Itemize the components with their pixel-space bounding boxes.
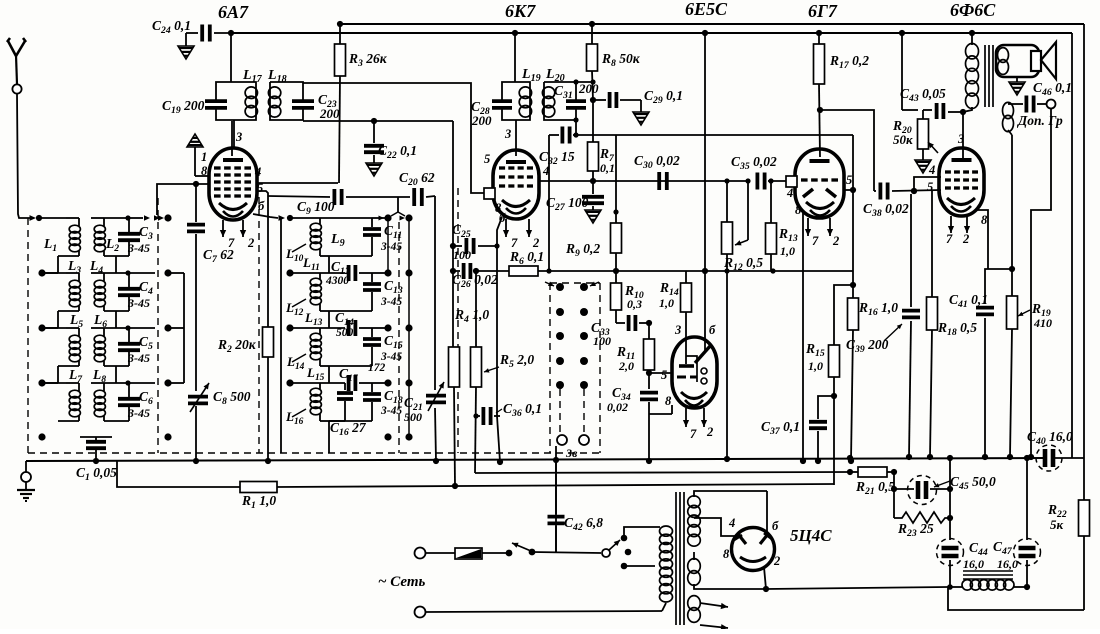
svg-text:3в: 3в	[565, 446, 578, 460]
node bank2 contacts row3	[384, 324, 391, 331]
svg-text:5: 5	[846, 173, 852, 187]
ground C24	[178, 46, 194, 59]
trimmer capacitor C11 3-45	[320, 217, 372, 219]
capacitor C22 0,1	[373, 121, 375, 143]
wire lamp return	[555, 446, 557, 552]
svg-text:2: 2	[247, 236, 254, 250]
wire C41 branch	[985, 269, 1012, 304]
svg-text:172: 172	[368, 362, 386, 374]
svg-text:2: 2	[962, 232, 969, 246]
wire IFT1 secondary bottom AVC	[303, 120, 453, 122]
svg-text:0,02: 0,02	[607, 400, 628, 414]
wire secondary to R19	[1008, 130, 1012, 135]
svg-text:6Ф6С: 6Ф6С	[950, 0, 996, 20]
coil L3 and L4 with trimmer C4	[38, 269, 45, 276]
wire bank1 bottom row	[38, 433, 45, 440]
svg-text:1: 1	[201, 150, 207, 164]
capacitor C21 500 variable	[426, 394, 446, 398]
switch lever	[512, 543, 531, 551]
resistor R11 2,0	[648, 323, 650, 339]
dashed box bottom edge	[28, 452, 600, 454]
svg-text:2: 2	[532, 236, 539, 250]
wire pin5 eye tube	[649, 372, 672, 374]
capacitor C31 200	[566, 99, 586, 103]
capacitor C36 0,1	[476, 415, 480, 417]
IF transformer coil L19	[502, 82, 530, 120]
coil L11/L12	[286, 269, 293, 276]
node bank1 contact row4	[164, 379, 171, 386]
capacitor C24 0,1	[186, 32, 198, 34]
capacitor C38 0,02	[879, 183, 883, 200]
output transformer core	[984, 45, 986, 107]
svg-text:16,0: 16,0	[997, 557, 1018, 571]
wire right edge lower	[1083, 536, 1085, 610]
svg-text:1,0: 1,0	[659, 296, 674, 310]
dial lamp leads	[559, 389, 561, 434]
wire R20 feed	[901, 33, 903, 110]
node 6F6S grid junction	[913, 193, 915, 195]
node bank2 input	[287, 215, 293, 221]
svg-text:5к: 5к	[1050, 517, 1064, 532]
svg-text:8: 8	[795, 203, 802, 217]
wire heater line	[475, 472, 850, 473]
wire second bus right drop	[1071, 33, 1073, 458]
dashed box tuner bank 2	[258, 197, 260, 453]
svg-text:0,3: 0,3	[627, 297, 642, 311]
fuse	[455, 548, 482, 559]
svg-text:0,1: 0,1	[600, 161, 615, 175]
wire plate to C38 branch	[820, 110, 874, 191]
node R23 right	[947, 515, 953, 521]
wire bank2 row1 to contacts	[372, 217, 388, 219]
wire to voltage selector	[532, 552, 601, 553]
resistor R23 25 zigzag	[894, 512, 953, 523]
coil L13/L14	[286, 324, 293, 331]
wire AVC line with C9 C20	[268, 196, 330, 197]
wire IFT1 to 6A7 grid3	[233, 120, 235, 148]
node R16 ground	[848, 458, 854, 464]
wire ground terminal	[25, 461, 27, 472]
wire R12 return	[726, 271, 728, 459]
resistor R21 0,5	[850, 471, 858, 473]
resistor R15 1,0	[829, 345, 840, 377]
node switch contacts	[556, 357, 564, 365]
svg-text:4: 4	[254, 165, 261, 179]
node bank1 row4 junction	[125, 380, 130, 385]
svg-text:7: 7	[511, 236, 518, 250]
node C35 right	[768, 178, 773, 183]
wire C25 line	[453, 245, 462, 247]
wire selector taps	[624, 527, 660, 538]
node C1 ground	[93, 458, 99, 464]
wire R15 branch	[834, 285, 853, 345]
node bank1 contact row2	[164, 269, 171, 276]
svg-text:2: 2	[832, 234, 839, 248]
svg-text:б: б	[772, 519, 779, 533]
wire pin8 6F6S	[977, 210, 988, 269]
node R15/R16 tap	[850, 282, 856, 288]
capacitor C43 0,05	[923, 109, 932, 111]
trimmer capacitor C4 3-45	[128, 273, 130, 287]
wire mains	[426, 552, 455, 554]
wire AF line	[538, 270, 853, 272]
resistor R2 20k	[267, 196, 269, 327]
wire choke left	[948, 586, 963, 588]
pin 6 6A7 wire	[253, 214, 278, 218]
wire IFT1 secondary top to 6K7	[303, 83, 484, 193]
node bank1 row2 junction	[125, 270, 130, 275]
resistor R6 0,1	[509, 266, 538, 276]
ground C27	[585, 210, 601, 223]
trimmer capacitor C13 3-45	[320, 272, 345, 274]
svg-text:Доп. Гр: Доп. Гр	[1016, 113, 1063, 128]
wire grid line 6G7	[656, 180, 749, 182]
wire filter cap feed	[949, 458, 951, 540]
capacitor C32 15	[561, 127, 565, 144]
svg-text:200: 200	[319, 106, 340, 121]
node heater junction	[847, 469, 853, 475]
trimmer capacitor C6 3-45	[128, 383, 130, 397]
pin3 6K7	[515, 120, 517, 156]
wire HV line	[766, 587, 948, 589]
node switch contacts	[556, 308, 564, 316]
voltage selector	[602, 549, 610, 557]
svg-text:4: 4	[928, 163, 935, 177]
wire cathode return	[548, 135, 550, 271]
resistor R3 26k	[339, 24, 341, 44]
node Dop return	[1028, 454, 1034, 460]
heater pins 6K7	[505, 219, 507, 237]
wire bias line R1	[117, 461, 240, 487]
node bank2 contacts row1	[384, 214, 391, 221]
node bank2 contacts row4	[384, 379, 391, 386]
tube 5Z4S envelope	[732, 528, 775, 571]
wire bottom return	[948, 587, 1084, 610]
capacitor C19 200	[205, 99, 227, 103]
wire cathode drop	[496, 246, 498, 416]
wire pin4 6F6S	[914, 177, 941, 191]
heater pins 6F6S	[950, 216, 952, 233]
wire choke right	[1013, 586, 1027, 588]
node choke left	[947, 584, 953, 590]
node bank1 contact row3	[164, 324, 171, 331]
node C29 tap	[590, 97, 596, 103]
capacitor C44 16,0 electrolytic	[937, 539, 964, 566]
svg-text:7: 7	[946, 232, 953, 246]
capacitor C16 27	[344, 383, 346, 390]
wire to contact row2	[129, 272, 155, 274]
wire main ground bus	[26, 458, 1043, 461]
capacitor C42 6,8	[555, 526, 557, 552]
resistor R17 0,2	[818, 33, 820, 44]
coil L1 and L2 with trimmer C3	[39, 217, 66, 219]
wire HV tap to pin4	[694, 518, 735, 536]
capacitor C26 0,02	[462, 263, 466, 279]
svg-text:2: 2	[706, 425, 713, 439]
wire to IFT2	[514, 33, 516, 82]
node AVC C26	[450, 268, 456, 274]
trimmer capacitor C5 3-45	[128, 328, 130, 342]
node switch2	[529, 549, 536, 556]
output transformer primary	[971, 33, 973, 45]
svg-text:3: 3	[235, 130, 242, 144]
capacitor C8 500 variable	[188, 395, 208, 399]
svg-text:7: 7	[228, 236, 235, 250]
svg-text:5: 5	[484, 152, 490, 166]
capacitor C46 0,1	[1008, 103, 1023, 105]
wire AVC vertical	[452, 121, 454, 347]
wire 6G7 diode return	[802, 213, 804, 461]
heater pins 6G7	[807, 218, 809, 236]
potentiometer R12 0,5	[726, 181, 728, 222]
svg-text:8: 8	[723, 547, 730, 561]
resistor R8 50k	[591, 24, 593, 44]
svg-text:200: 200	[471, 113, 492, 128]
svg-text:5: 5	[257, 181, 263, 195]
resistor R18 0,5	[931, 191, 933, 297]
transformer filament winding	[688, 596, 701, 611]
capacitor C33 100	[616, 322, 625, 324]
node switch contacts	[556, 332, 564, 340]
heater pins 6E5S	[685, 408, 687, 427]
capacitor C29 0,1	[593, 99, 606, 101]
wire top supply bus	[340, 23, 1084, 25]
secondary winding Dop Gr	[1003, 102, 1014, 118]
wire to contact row3	[129, 327, 155, 329]
resistor R22 5k	[1079, 500, 1090, 536]
svg-text:3-45: 3-45	[127, 406, 150, 420]
wire 6K7 cathode	[497, 217, 502, 246]
capacitor C20 62	[412, 188, 416, 206]
svg-text:2,0: 2,0	[618, 359, 634, 373]
wire padder line	[434, 196, 436, 390]
mains terminal top	[415, 548, 426, 559]
node AVC C25	[450, 243, 456, 249]
svg-text:8: 8	[201, 164, 208, 178]
svg-text:100: 100	[453, 248, 471, 262]
node bank2 bottom contacts	[384, 433, 391, 440]
svg-text:6А7: 6А7	[218, 2, 249, 22]
wire 5Z4S filament line	[700, 588, 766, 590]
heater pins 6A7	[222, 220, 224, 237]
svg-text:2: 2	[773, 554, 780, 568]
capacitor C30 0,02	[657, 172, 661, 190]
wire bank2 row3 to contacts	[372, 327, 388, 329]
tube 6G7 envelope	[795, 149, 844, 218]
ground R20	[915, 160, 931, 173]
capacitor C34 0,02	[648, 373, 650, 389]
switch arrows	[545, 282, 554, 286]
node switch contacts	[556, 381, 564, 389]
svg-text:~ Сеть: ~ Сеть	[378, 574, 426, 590]
speaker	[996, 45, 1039, 77]
wire anode 6F6S	[962, 112, 964, 161]
capacitor C40 16,0 electrolytic	[1036, 445, 1062, 471]
svg-text:1,0: 1,0	[780, 244, 795, 258]
svg-text:3-45: 3-45	[380, 405, 402, 417]
capacitor C23 200	[292, 99, 314, 103]
node bank1 row1 junction	[125, 215, 130, 220]
ground speaker	[1016, 77, 1018, 82]
coil L9/L10	[290, 217, 320, 219]
node R15 bottom	[831, 393, 837, 399]
coil L15/L16	[286, 379, 293, 386]
6E5S internals	[686, 356, 697, 382]
resistor R16 1,0	[852, 271, 854, 298]
svg-text:3-45: 3-45	[127, 241, 150, 255]
svg-text:4300: 4300	[325, 275, 349, 287]
pin 4 6A7 wire to R3	[256, 182, 338, 184]
wire L20 top to R8 line	[576, 81, 593, 83]
node plate junction	[228, 30, 234, 36]
svg-text:6К7: 6К7	[505, 1, 536, 21]
filament arrows	[700, 603, 728, 607]
tube 6F6S envelope	[939, 148, 984, 216]
svg-text:500: 500	[336, 327, 354, 339]
node R3 top	[337, 21, 343, 27]
node anode junction	[960, 109, 966, 115]
resistor R14 1,0	[685, 271, 687, 283]
wire R21 drop	[893, 472, 895, 518]
trimmer capacitor C3 3-45	[128, 218, 130, 232]
svg-text:5Ц4С: 5Ц4С	[790, 526, 832, 545]
earth ground	[17, 489, 35, 491]
wire to contact row4	[129, 382, 155, 384]
capacitor C45 50,0 electrolytic	[894, 488, 914, 490]
node AF junctions	[613, 268, 619, 274]
svg-text:100: 100	[593, 334, 611, 348]
svg-text:3-45: 3-45	[127, 351, 150, 365]
IF transformer coil L17	[216, 82, 256, 120]
switch grid commutator	[549, 283, 551, 453]
dial lamp terminals	[557, 435, 567, 445]
ground 6A7 pin1	[187, 134, 203, 147]
svg-text:7: 7	[690, 427, 697, 441]
svg-text:4: 4	[728, 516, 735, 530]
transformer HV secondary	[688, 496, 701, 508]
node antenna input	[36, 215, 42, 221]
wire plate 6A7 to IFT1	[230, 33, 232, 82]
svg-text:50к: 50к	[893, 132, 913, 147]
pin 5 6A7	[256, 191, 268, 196]
potentiometer R20 50k	[918, 119, 929, 149]
capacitor C47 16,0 electrolytic	[1026, 458, 1028, 540]
capacitor C39 200	[910, 194, 912, 307]
svg-text:6Г7: 6Г7	[808, 1, 838, 21]
node R7 bottom	[590, 178, 596, 184]
svg-text:3: 3	[957, 132, 964, 146]
svg-text:1,0: 1,0	[808, 359, 823, 373]
wire bank2 feed line	[280, 218, 282, 453]
wire antenna lead	[17, 94, 30, 218]
svg-text:3-45: 3-45	[380, 296, 402, 308]
wire mains bottom	[426, 611, 662, 612]
wire pin5	[844, 189, 853, 191]
svg-text:8: 8	[665, 394, 672, 408]
transformer LV winding	[688, 559, 701, 574]
node C45 left	[891, 486, 897, 492]
wire C26 line	[453, 270, 460, 272]
wire bank2 row4 to contacts	[372, 382, 388, 384]
svg-text:7: 7	[812, 234, 819, 248]
pin 3 6A7	[231, 121, 233, 156]
node HV out	[763, 586, 769, 592]
wire pin6 eye tube	[704, 33, 706, 352]
svg-text:4: 4	[786, 186, 793, 200]
capacitor C37 0,1	[818, 396, 834, 419]
capacitor C1 0,05	[95, 437, 97, 441]
node C22 tap	[371, 118, 377, 124]
trimmer capacitor C15 3-45	[320, 327, 345, 329]
capacitor C27 100	[592, 181, 594, 194]
node bank2 contacts row2	[384, 269, 391, 276]
capacitor C9 100	[332, 189, 336, 205]
wire C38 coupling line	[874, 190, 876, 192]
wire detector drop to 6G7	[852, 135, 854, 190]
resistor R19 410	[1011, 269, 1013, 296]
node bank1 row3 junction	[125, 325, 130, 330]
resistor R1 1,0	[240, 482, 277, 493]
wire bias feed	[833, 396, 835, 485]
filter choke	[963, 570, 1013, 572]
grid cap 6K7	[484, 188, 495, 199]
svg-text:3-45: 3-45	[127, 296, 150, 310]
mains terminal bottom	[415, 607, 426, 618]
wire pin5 to AF chain	[852, 190, 854, 271]
svg-text:3: 3	[674, 323, 681, 337]
wire detector line	[549, 134, 559, 136]
wire right edge from top bus	[1083, 24, 1085, 500]
node R21 right	[891, 469, 897, 475]
wire HV to pin6	[766, 491, 768, 532]
svg-text:500: 500	[404, 410, 422, 424]
IF transformer coil L20	[544, 82, 576, 101]
node C38 junction dot	[911, 188, 917, 194]
node switch contacts	[556, 283, 564, 291]
wire Dop Gr return	[1031, 109, 1051, 457]
capacitor C28 200	[492, 99, 512, 103]
transformer primary winding	[660, 526, 673, 536]
svg-text:410: 410	[1033, 316, 1052, 330]
capacitor C25 100	[464, 238, 468, 254]
IF transformer coil L18	[270, 82, 303, 101]
transformer core	[675, 492, 677, 625]
wire eye cathode	[649, 413, 672, 415]
node switch	[506, 550, 513, 557]
resistor R7 0,1	[588, 142, 599, 171]
svg-text:3-45: 3-45	[380, 241, 402, 253]
capacitor C35 0,02	[756, 173, 760, 190]
wire second bus	[231, 32, 1072, 34]
svg-text:8: 8	[981, 213, 988, 227]
node bank1 contact row1	[164, 214, 171, 221]
grid cap 6G7	[786, 176, 797, 187]
resistor R9 0,2	[615, 135, 617, 223]
coil L5 and L6 with trimmer C5	[38, 324, 45, 331]
svg-text:3: 3	[504, 127, 511, 141]
tube 6K7 envelope	[493, 150, 539, 219]
svg-text:6Е5С: 6Е5С	[685, 0, 728, 19]
node R8 top	[589, 21, 595, 27]
wire bank1 shorting link	[168, 272, 184, 274]
svg-text:200: 200	[578, 81, 599, 96]
wire C34 to ground bus	[648, 414, 650, 461]
svg-text:5: 5	[661, 368, 667, 382]
node 6G7 plate tap	[817, 107, 823, 113]
resistor R10 0,3	[611, 283, 622, 310]
capacitor C41 0,1	[976, 306, 994, 310]
trimmer capacitor C18 3-45	[320, 382, 345, 384]
